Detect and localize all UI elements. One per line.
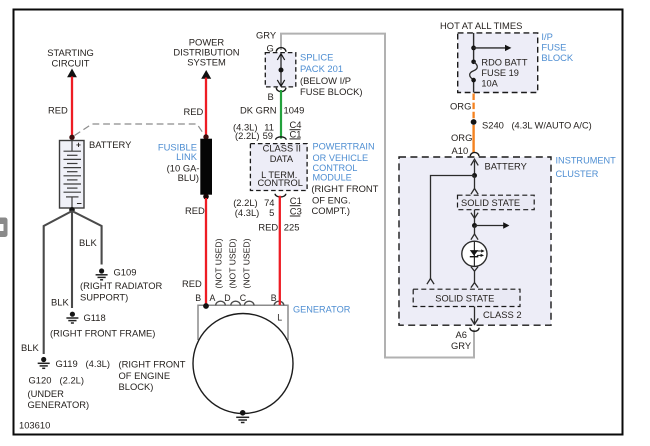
connector arc B bbox=[276, 88, 286, 92]
svg-text:CONTROL: CONTROL bbox=[257, 178, 302, 188]
svg-text:SUPPORT): SUPPORT) bbox=[80, 292, 128, 303]
label I/P FUSE BLOCK bbox=[541, 31, 574, 63]
arrow feed to other circuits bbox=[474, 45, 512, 51]
solid state module 1 bbox=[458, 195, 535, 210]
svg-text:G119: G119 bbox=[56, 358, 78, 369]
svg-text:RED: RED bbox=[258, 222, 278, 233]
svg-text:INSTRUMENT: INSTRUMENT bbox=[556, 156, 617, 166]
svg-text:POWERTRAIN: POWERTRAIN bbox=[313, 142, 375, 152]
label G120 (2.2L) bbox=[29, 375, 85, 386]
svg-text:HOT AT ALL TIMES: HOT AT ALL TIMES bbox=[440, 20, 522, 31]
svg-text:RED: RED bbox=[184, 106, 204, 117]
wire RED battery to starting circuit bbox=[71, 77, 73, 138]
splice internal bus bbox=[277, 54, 284, 87]
fusible link (10 GA BLU) bbox=[200, 139, 212, 195]
wire DK GRN 1049 splice to PCM bbox=[280, 90, 282, 139]
svg-text:ORG: ORG bbox=[451, 132, 472, 143]
svg-text:(4.3L W/AUTO A/C): (4.3L W/AUTO A/C) bbox=[512, 121, 592, 131]
svg-text:SOLID STATE: SOLID STATE bbox=[461, 198, 520, 208]
wire left branch to solid state 2 bbox=[427, 176, 475, 285]
connector arc G bbox=[276, 48, 286, 52]
svg-text:GRY: GRY bbox=[256, 30, 277, 41]
ground generator case bbox=[236, 410, 249, 423]
svg-text:CONTROL: CONTROL bbox=[313, 163, 358, 173]
svg-text:GRY: GRY bbox=[451, 340, 472, 351]
svg-text:RED: RED bbox=[185, 205, 205, 216]
terminal bump A bbox=[216, 301, 226, 305]
ground G118 bbox=[66, 312, 78, 323]
pin label (4.3L) 11 bbox=[233, 122, 274, 133]
wire BLK battery to G119 bbox=[44, 211, 72, 354]
node feed tap bbox=[471, 46, 476, 51]
connector arc PCM input bbox=[276, 137, 287, 140]
wire feed to solid state 1 bbox=[471, 176, 478, 195]
ground G109 bbox=[96, 268, 108, 279]
connector arc A6 bbox=[470, 328, 479, 332]
solid state module 2 bbox=[413, 289, 520, 306]
arrow to power distribution system bbox=[201, 70, 211, 79]
svg-text:(2.2L): (2.2L) bbox=[235, 130, 260, 141]
splice pack SP201 box bbox=[265, 53, 296, 87]
svg-text:C: C bbox=[240, 293, 247, 303]
svg-text:D: D bbox=[224, 293, 230, 303]
svg-text:G109: G109 bbox=[114, 267, 137, 278]
pin label (2.2L) 59 bbox=[235, 130, 273, 141]
svg-text:(RIGHT RADIATOR: (RIGHT RADIATOR bbox=[80, 280, 163, 291]
label S240 (4.3L W/AUTO A/C) bbox=[482, 120, 592, 131]
wire ORG fuse block to S240 bbox=[472, 94, 474, 120]
wire RED fusible link to generator B bbox=[205, 198, 207, 306]
arrow to starting circuit bbox=[67, 69, 77, 78]
svg-text:FUSE BLOCK): FUSE BLOCK) bbox=[300, 86, 363, 97]
node battery positive terminal bbox=[69, 135, 74, 140]
svg-text:RDO BATT: RDO BATT bbox=[481, 58, 527, 68]
svg-text:(4.3L): (4.3L) bbox=[86, 358, 111, 369]
terminal bump D bbox=[231, 301, 241, 305]
svg-text:10A: 10A bbox=[481, 79, 498, 89]
connector arc A10 bbox=[470, 152, 479, 156]
svg-text:I/P: I/P bbox=[541, 31, 552, 42]
svg-text:(NOT USED): (NOT USED) bbox=[214, 238, 224, 288]
terminal bump C bbox=[244, 301, 254, 305]
dashed tie line battery to fusible link bbox=[75, 124, 205, 136]
label POWERTRAIN OR VEHICLE CONTROL MODULE bbox=[313, 142, 375, 183]
label STARTING CIRCUIT bbox=[47, 47, 94, 69]
svg-text:STARTING: STARTING bbox=[47, 47, 94, 58]
svg-text:B: B bbox=[271, 293, 277, 303]
svg-text:OF ENGINE: OF ENGINE bbox=[119, 370, 171, 381]
svg-text:G120: G120 bbox=[29, 375, 52, 386]
node S240 bbox=[471, 119, 477, 125]
I/P fuse block box bbox=[458, 33, 538, 93]
label INSTRUMENT CLUSTER bbox=[556, 156, 617, 179]
battery polarity marks bbox=[76, 140, 82, 209]
connector label C4 bbox=[290, 119, 302, 130]
svg-text:RED: RED bbox=[48, 105, 68, 116]
svg-text:(RIGHT FRONT: (RIGHT FRONT bbox=[119, 359, 186, 370]
node fusible link top bbox=[203, 134, 208, 139]
svg-text:(RIGHT FRONT: (RIGHT FRONT bbox=[311, 183, 378, 194]
svg-text:GENERATOR): GENERATOR) bbox=[28, 399, 90, 410]
connector arc PCM output bbox=[275, 194, 286, 197]
wire BLK battery to G109 bbox=[72, 211, 102, 265]
svg-text:103610: 103610 bbox=[19, 420, 50, 431]
wire ORG S240 to instrument cluster A10 bbox=[472, 125, 474, 153]
node fusible link bottom bbox=[203, 194, 209, 200]
battery B1 box bbox=[60, 141, 85, 209]
svg-text:BLOCK): BLOCK) bbox=[119, 381, 154, 392]
pin label (4.3L) 5 bbox=[235, 207, 274, 218]
svg-text:BLU): BLU) bbox=[178, 172, 199, 183]
svg-text:DATA: DATA bbox=[270, 154, 294, 164]
svg-text:A6: A6 bbox=[456, 329, 467, 340]
svg-text:RED: RED bbox=[182, 278, 202, 289]
svg-text:(2.2L): (2.2L) bbox=[60, 375, 85, 386]
svg-text:MODULE: MODULE bbox=[313, 173, 352, 183]
svg-text:SOLID STATE: SOLID STATE bbox=[435, 294, 494, 304]
label (RIGHT FRONT OF ENGINE BLOCK) bbox=[119, 359, 186, 393]
svg-text:FUSE 19: FUSE 19 bbox=[481, 68, 519, 78]
svg-text:A: A bbox=[210, 293, 216, 303]
svg-text:BLOCK: BLOCK bbox=[541, 52, 574, 63]
svg-text:B: B bbox=[268, 91, 274, 102]
label POWER DISTRIBUTION SYSTEM bbox=[173, 37, 239, 68]
instrument cluster box bbox=[399, 157, 551, 325]
svg-text:BLK: BLK bbox=[79, 237, 97, 248]
svg-text:DK GRN: DK GRN bbox=[240, 105, 276, 116]
svg-text:L: L bbox=[277, 313, 282, 323]
svg-text:(UNDER: (UNDER bbox=[28, 388, 65, 399]
svg-text:FUSE: FUSE bbox=[541, 42, 566, 53]
svg-text:GENERATOR: GENERATOR bbox=[293, 305, 351, 315]
svg-text:(NOT USED): (NOT USED) bbox=[241, 238, 251, 288]
wire lamp to solid state 2 bbox=[471, 267, 478, 288]
indicator lamp DS1 circle bbox=[462, 241, 487, 266]
svg-text:74: 74 bbox=[264, 197, 274, 208]
svg-text:1049: 1049 bbox=[284, 105, 305, 116]
svg-text:C1: C1 bbox=[290, 128, 302, 139]
node battery negative terminal bbox=[69, 207, 75, 213]
node splice junction bbox=[279, 68, 284, 73]
svg-text:OF ENG.: OF ENG. bbox=[312, 194, 351, 205]
svg-text:(2.2L): (2.2L) bbox=[233, 197, 258, 208]
wire BLK battery to G118 bbox=[71, 211, 73, 308]
label RDO BATT FUSE 19 10A bbox=[481, 58, 527, 89]
node generator B terminal bbox=[203, 303, 209, 309]
label RED 225 bbox=[258, 222, 299, 233]
connector label C3 bbox=[290, 206, 302, 217]
svg-text:BATTERY: BATTERY bbox=[485, 161, 528, 172]
svg-text:G: G bbox=[267, 43, 274, 54]
svg-text:CIRCUIT: CIRCUIT bbox=[51, 58, 89, 69]
arrow battery feed into cluster bbox=[471, 159, 478, 175]
ui tab left edge bbox=[0, 218, 8, 238]
wire to indicator lamp bbox=[471, 226, 478, 240]
svg-text:SPLICE: SPLICE bbox=[300, 52, 333, 63]
connector label C1 bbox=[290, 128, 302, 139]
svg-text:PACK 201: PACK 201 bbox=[300, 63, 343, 74]
svg-text:G118: G118 bbox=[84, 312, 106, 323]
svg-text:(4.3L): (4.3L) bbox=[235, 207, 259, 218]
svg-text:59: 59 bbox=[263, 130, 273, 141]
ground G119 bbox=[38, 357, 50, 368]
arrow to other circuits bbox=[475, 222, 510, 228]
svg-text:BLK: BLK bbox=[21, 342, 39, 353]
svg-text:225: 225 bbox=[284, 222, 300, 233]
svg-text:5: 5 bbox=[269, 207, 274, 218]
label (RIGHT FRONT OF ENG. COMPT.) bbox=[311, 183, 378, 216]
wire solid state 1 to lamp node bbox=[471, 210, 478, 226]
svg-text:CLASS 2: CLASS 2 bbox=[483, 309, 522, 320]
pin label (2.2L) 74 bbox=[233, 197, 274, 208]
svg-text:−: − bbox=[77, 199, 82, 209]
wire feed inside fuse block bbox=[473, 33, 475, 93]
svg-text:CLASS II: CLASS II bbox=[263, 144, 301, 154]
svg-text:CLUSTER: CLUSTER bbox=[556, 169, 599, 179]
svg-text:COMPT.): COMPT.) bbox=[312, 205, 351, 216]
svg-text:BATTERY: BATTERY bbox=[89, 139, 132, 150]
connector label C1 bbox=[290, 195, 302, 206]
svg-text:B: B bbox=[195, 293, 201, 303]
svg-text:+: + bbox=[76, 140, 81, 150]
PCM box CLASS II DATA / L TERM. CONTROL bbox=[250, 144, 307, 191]
svg-text:C3: C3 bbox=[290, 206, 302, 217]
svg-text:BLK: BLK bbox=[51, 297, 69, 308]
svg-text:OR VEHICLE: OR VEHICLE bbox=[313, 153, 369, 163]
svg-text:(BELOW I/P: (BELOW I/P bbox=[300, 75, 351, 86]
battery cell plates bbox=[64, 141, 82, 209]
svg-text:(NOT USED): (NOT USED) bbox=[228, 238, 238, 288]
svg-text:SYSTEM: SYSTEM bbox=[187, 57, 226, 68]
label (UNDER GENERATOR) bbox=[28, 388, 90, 410]
wire RED 225 PCM to generator L bbox=[279, 196, 281, 305]
svg-text:A10: A10 bbox=[452, 145, 469, 156]
node lamp feed junction bbox=[472, 223, 477, 228]
node cluster battery feed junction bbox=[472, 173, 477, 178]
LED symbol bbox=[470, 249, 485, 257]
label FUSIBLE LINK bbox=[158, 142, 200, 184]
terminal bump L right bbox=[274, 301, 284, 305]
label SPLICE PACK 201 (BELOW I/P FUSE BLOCK) bbox=[300, 52, 363, 98]
label G119 (4.3L) bbox=[56, 358, 111, 369]
label (RIGHT RADIATOR SUPPORT) bbox=[80, 280, 163, 303]
fuse RDO BATT FUSE 19 10A bbox=[470, 60, 478, 83]
svg-text:S240: S240 bbox=[482, 120, 504, 131]
generator G1 body bbox=[193, 314, 293, 414]
svg-text:LINK: LINK bbox=[176, 151, 198, 162]
svg-text:ORG: ORG bbox=[450, 100, 471, 111]
wire GRY splice pack G to instrument cluster A6 bbox=[281, 34, 474, 358]
wire RED power distribution to fusible link bbox=[205, 78, 207, 138]
generator G1 connector housing bbox=[198, 305, 288, 340]
arrow CLASS 2 output bbox=[471, 307, 478, 325]
svg-text:(RIGHT FRONT FRAME): (RIGHT FRONT FRAME) bbox=[50, 328, 155, 339]
